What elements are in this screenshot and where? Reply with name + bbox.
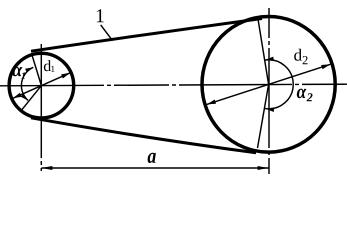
- wrap boundary line upper, pulley 1: [32, 54, 42, 86]
- label a: [148, 153, 156, 163]
- wrap boundary line lower, pulley 2: [258, 84, 269, 148]
- vertical centerline small pulley / extension line: [40, 44, 42, 171]
- label d2: [294, 49, 302, 61]
- horizontal centerline: [0, 84, 347, 86]
- belt label 1 leader: [101, 25, 113, 41]
- pulley 1 (small): [9, 53, 74, 118]
- dimension line a: [41, 167, 268, 169]
- belt bottom strand: [31, 118, 256, 153]
- belt top strand: [31, 19, 262, 52]
- wrap boundary line lower, pulley 1: [21, 86, 42, 112]
- label alpha1: [12, 67, 22, 76]
- pulley 2 (large): [202, 17, 335, 153]
- angle arc alpha1: [21, 67, 33, 100]
- diameter arrow d1: [13, 73, 71, 99]
- wrap boundary line upper, pulley 2: [258, 17, 269, 84]
- vertical centerline large pulley / extension line: [268, 8, 270, 174]
- belt label 1: [97, 9, 104, 22]
- angle arc alpha2: [265, 60, 294, 109]
- diameter arrow d2: [207, 64, 331, 104]
- label d1: [44, 60, 51, 71]
- label alpha2: [297, 89, 307, 99]
